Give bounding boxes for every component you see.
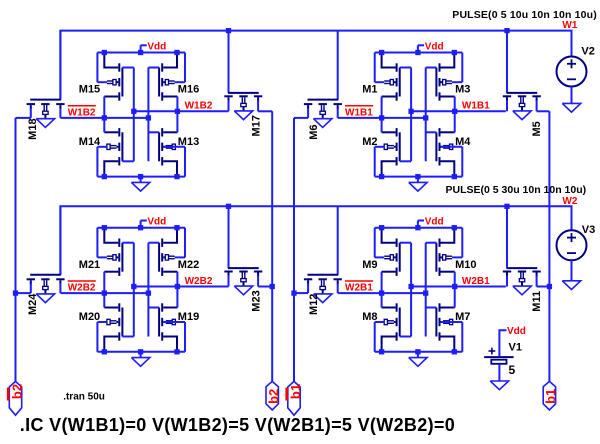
- svg-text:Vdd: Vdd: [147, 41, 166, 52]
- svg-text:M23: M23: [250, 290, 262, 311]
- wire bulk drop left (Vdd rail to M15 bulk): [96, 53, 98, 83]
- wire ground stub: [140, 352, 142, 358]
- wire M19 bulk to ground rail: [163, 321, 185, 323]
- ground flag at M11 bulk: [513, 286, 531, 295]
- wire cross-couple left: [410, 243, 412, 337]
- wire M17 right leg to bit line: [257, 100, 259, 111]
- wire ground rail of cell: [375, 351, 463, 353]
- svg-text:M15: M15: [79, 84, 100, 96]
- label W1B1 (overlined): [345, 105, 373, 107]
- wire M24 gate to word line: [59, 206, 61, 274]
- wire gate jog M8: [400, 336, 411, 338]
- port flag b1 inverted: [288, 381, 300, 415]
- svg-text:b1: b1: [543, 389, 558, 404]
- wire M15 drain to node: [103, 97, 105, 118]
- wire Vdd label stub: [417, 45, 419, 52]
- wire cross-couple right: [147, 243, 149, 337]
- wire M5 gate to word line: [506, 31, 508, 93]
- wire M7 bulk to ground rail: [441, 321, 463, 323]
- wire V1 to ground: [498, 364, 500, 381]
- wire M24 left leg to bit line: [30, 283, 32, 293]
- svg-text:M1: M1: [362, 84, 377, 96]
- wire M11 left leg to cell node: [506, 276, 508, 287]
- wire M17 left leg to cell node: [228, 100, 230, 111]
- wire V3 to ground: [571, 260, 573, 281]
- transistor M5 (NMOS pass): [503, 93, 541, 111]
- ground flag at M6 bulk: [314, 119, 332, 128]
- junction M11 to bit line: [547, 284, 552, 289]
- svg-text:V3: V3: [582, 224, 595, 236]
- wire ground stub: [417, 352, 419, 358]
- wire gate jog M13: [148, 131, 159, 133]
- svg-text:M3: M3: [455, 84, 470, 96]
- svg-text:V2: V2: [581, 46, 594, 58]
- ground below V3: [562, 281, 580, 290]
- wire M6 gate to word line: [337, 31, 339, 100]
- svg-text:b1: b1: [288, 384, 303, 399]
- wire M11 right leg to bit line: [536, 276, 538, 287]
- svg-text:Vdd: Vdd: [425, 217, 444, 228]
- wire M24 right leg to cell node: [59, 283, 61, 293]
- wire M6 left leg to bit line: [307, 108, 309, 118]
- wire M16 drain to node: [176, 97, 178, 112]
- ground flag of cell: [409, 182, 427, 191]
- wire gate jog M10: [426, 242, 437, 244]
- wire M8 bulk to ground rail: [375, 321, 385, 323]
- junction M17 gate on word line: [226, 28, 231, 33]
- wire gate jog M19: [148, 307, 159, 309]
- wire node W2B2 inverted (lower mid): [60, 292, 148, 294]
- svg-text:.IC V(W1B1)=0 V(W1B2)=5 V(W2B1: .IC V(W1B1)=0 V(W1B2)=5 V(W2B1)=5 V(W2B2…: [20, 415, 455, 435]
- wire M9 drain to node: [381, 272, 383, 293]
- junction dots of cell: [379, 225, 384, 230]
- wire ground rail of cell: [97, 351, 185, 353]
- svg-text:W2B1: W2B1: [462, 276, 490, 287]
- svg-text:.tran 50u: .tran 50u: [63, 392, 105, 403]
- svg-text:M21: M21: [79, 259, 100, 271]
- transistor M18 (NMOS pass): [27, 100, 65, 119]
- wire Vdd rail of cell M15/M16: [97, 52, 185, 54]
- wire M2 drain to node: [381, 118, 383, 132]
- wire gate jog M22: [148, 242, 159, 244]
- wire cross-couple right: [147, 68, 149, 162]
- svg-text:PULSE(0 5 30u 10n 10n 10u): PULSE(0 5 30u 10n 10n 10u): [446, 184, 587, 196]
- wire M12 gate to word line: [337, 206, 339, 274]
- svg-text:W1B2: W1B2: [185, 101, 213, 112]
- svg-text:M16: M16: [178, 84, 199, 96]
- junction dots of cell: [102, 50, 107, 55]
- transistor M13 (NMOS): [159, 128, 177, 175]
- transistor M22 (PMOS): [159, 230, 177, 276]
- transistor M19 (NMOS): [159, 303, 177, 350]
- wire gate jog M3: [426, 67, 437, 69]
- svg-text:M22: M22: [178, 259, 199, 271]
- port flag b1: [543, 381, 555, 410]
- svg-text:M20: M20: [79, 311, 100, 323]
- wire M7 drain to node: [454, 287, 456, 308]
- wire M23 gate to word line: [228, 206, 230, 268]
- wire Vdd rail of cell M1/M3: [375, 52, 463, 54]
- wire gate jog M9: [400, 242, 411, 244]
- wire M23 left leg to cell node: [228, 276, 230, 287]
- transistor M6 (NMOS pass): [304, 100, 342, 119]
- wire gate jog M20: [122, 336, 133, 338]
- wire M5 right leg to bit line: [536, 100, 538, 111]
- wire Vdd label stub: [417, 221, 419, 228]
- voltage source V2: [557, 57, 587, 87]
- wire node W1B2 (upper mid): [134, 110, 229, 112]
- wire M3 drain to node: [454, 97, 456, 112]
- svg-text:Vdd: Vdd: [507, 326, 526, 337]
- wire bulk drop right (Vdd rail to M3 bulk): [461, 53, 463, 83]
- wire M18 gate to word line: [59, 31, 61, 100]
- transistor M7 (NMOS): [436, 303, 454, 350]
- junction M5 gate on word line: [504, 28, 509, 33]
- wire gate jog M4: [426, 131, 437, 133]
- wire cross-couple right: [425, 68, 427, 162]
- svg-text:M17: M17: [250, 115, 262, 136]
- svg-text:M5: M5: [531, 121, 543, 136]
- junction M12 to bit line: [291, 290, 296, 295]
- wire M8 drain to node: [381, 293, 383, 307]
- svg-text:M10: M10: [455, 259, 476, 271]
- junction M11 gate on word line: [504, 204, 509, 209]
- svg-text:Vdd: Vdd: [425, 41, 444, 52]
- wire M6 right leg to cell node: [337, 108, 339, 118]
- wire bulk drop right (Vdd rail to M22 bulk): [184, 228, 186, 258]
- ground below V2: [562, 103, 580, 112]
- transistor M3 (PMOS): [436, 55, 454, 101]
- wire M10 drain to node: [454, 272, 456, 287]
- ground flag at M18 bulk: [36, 119, 54, 128]
- wire M13 bulk to ground rail: [163, 146, 185, 148]
- svg-text:V1: V1: [509, 342, 522, 354]
- ground flag of cell: [409, 358, 427, 367]
- ground flag at M12 bulk: [314, 294, 332, 303]
- svg-text:M18: M18: [27, 118, 39, 139]
- label W2B2 (overlined): [68, 280, 96, 282]
- wire bit line B1: [548, 111, 550, 381]
- svg-text:M24: M24: [27, 293, 39, 315]
- ground flag of cell: [131, 358, 149, 367]
- wire bit line B2 inverted: [15, 118, 17, 382]
- ground flag at M24 bulk: [36, 294, 54, 303]
- transistor M21 (PMOS): [104, 230, 122, 276]
- wire Vdd label stub: [140, 221, 142, 228]
- junction M23 gate on word line: [226, 204, 231, 209]
- wire gate jog M14: [122, 160, 133, 162]
- transistor M15 (PMOS): [104, 55, 122, 101]
- wire V1 top / Vdd stub: [499, 330, 506, 356]
- svg-text:W1: W1: [562, 20, 577, 31]
- wire node W2B1 (upper mid): [411, 286, 506, 288]
- voltage source V3: [557, 230, 587, 260]
- ground flag of cell: [131, 182, 149, 191]
- svg-text:W1B1: W1B1: [345, 107, 373, 118]
- wire gate jog M16: [148, 67, 159, 69]
- ground flag at M17 bulk: [234, 111, 252, 120]
- wire bulk drop right (Vdd rail to M16 bulk): [184, 53, 186, 83]
- svg-text:PULSE(0 5 10u 10n 10n 10u): PULSE(0 5 10u 10n 10n 10u): [452, 9, 597, 21]
- wire M21 drain to node: [103, 272, 105, 293]
- svg-text:b2: b2: [9, 384, 24, 399]
- ground flag at M5 bulk: [513, 111, 531, 120]
- transistor M4 (NMOS): [436, 128, 454, 175]
- transistor M12 (NMOS pass): [304, 275, 342, 294]
- wire ground rail of cell: [97, 176, 185, 178]
- wire bulk drop right (Vdd rail to M10 bulk): [461, 228, 463, 258]
- wire M20 drain to node: [103, 293, 105, 307]
- svg-text:5: 5: [509, 363, 516, 377]
- wire gate jog M1: [400, 67, 411, 69]
- junction dots of cell: [379, 50, 384, 55]
- transistor M2 (NMOS): [382, 128, 400, 175]
- svg-text:M12: M12: [308, 294, 320, 315]
- label W1B2 (overlined): [68, 105, 96, 107]
- svg-text:W1B1: W1B1: [462, 101, 490, 112]
- junction M24 to bit line: [13, 290, 18, 295]
- wire M14 drain to node: [103, 118, 105, 132]
- wire cross-couple left: [410, 68, 412, 162]
- transistor M10 (PMOS): [436, 230, 454, 276]
- wire M11 gate to word line: [506, 206, 508, 268]
- wire gate jog M15: [122, 67, 133, 69]
- transistor M9 (PMOS): [382, 230, 400, 276]
- svg-text:Vdd: Vdd: [147, 217, 166, 228]
- wire gate jog M2: [400, 160, 411, 162]
- wire ground stub: [417, 177, 419, 183]
- ground below V1: [490, 381, 508, 390]
- wire M12 left leg to bit line: [307, 283, 309, 293]
- transistor M1 (PMOS): [382, 55, 400, 101]
- voltage source V1 (battery): [484, 348, 513, 364]
- label W2B1 (overlined): [345, 280, 373, 282]
- wire M18 left leg to bit line: [30, 108, 32, 118]
- wire M4 drain to node: [454, 111, 456, 132]
- wire Vdd rail of cell M9/M10: [375, 227, 463, 229]
- wire M12 right leg to cell node: [337, 283, 339, 293]
- wire M22 drain to node: [176, 272, 178, 287]
- svg-text:W2B1: W2B1: [345, 283, 373, 294]
- transistor M24 (NMOS pass): [27, 275, 65, 294]
- wire Vdd label stub: [140, 45, 142, 52]
- junction M23 to bit line: [270, 284, 275, 289]
- wire word line W2: [60, 206, 571, 274]
- svg-text:M6: M6: [308, 125, 320, 140]
- wire node W1B2 inverted (lower mid): [60, 117, 148, 119]
- wire cross-couple left: [133, 68, 135, 162]
- wire M17 gate to word line: [228, 31, 230, 93]
- svg-text:M11: M11: [531, 291, 543, 312]
- wire Vdd rail of cell M21/M22: [97, 227, 185, 229]
- wire M14 bulk to ground rail: [97, 146, 107, 148]
- svg-text:W1B2: W1B2: [68, 107, 96, 118]
- wire gate jog M7: [426, 307, 437, 309]
- wire node W1B1 (upper mid): [411, 110, 506, 112]
- wire word line W1: [60, 31, 571, 100]
- wire node W2B2 (upper mid): [134, 286, 229, 288]
- wire node W2B1 inverted (lower mid): [338, 292, 426, 294]
- transistor M14 (NMOS): [104, 128, 122, 175]
- wire M1 drain to node: [381, 97, 383, 118]
- wire node W1B1 inverted (lower mid): [338, 117, 426, 119]
- ground flag at M23 bulk: [234, 286, 252, 295]
- svg-text:W2B2: W2B2: [68, 283, 96, 294]
- wire bulk drop left (Vdd rail to M21 bulk): [96, 228, 98, 258]
- wire bit line B2: [271, 111, 273, 381]
- transistor M8 (NMOS): [382, 303, 400, 350]
- wire ground rail of cell: [375, 176, 463, 178]
- svg-text:W2B2: W2B2: [185, 276, 213, 287]
- transistor M16 (PMOS): [159, 55, 177, 101]
- wire M2 bulk to ground rail: [375, 146, 385, 148]
- wire cross-couple left: [133, 243, 135, 337]
- wire gate jog M21: [122, 242, 133, 244]
- wire M13 drain to node: [176, 111, 178, 132]
- transistor M20 (NMOS): [104, 303, 122, 350]
- wire M5 left leg to cell node: [506, 100, 508, 111]
- svg-text:W2: W2: [562, 196, 577, 207]
- wire M4 bulk to ground rail: [441, 146, 463, 148]
- wire M19 drain to node: [176, 287, 178, 308]
- wire bulk drop left (Vdd rail to M9 bulk): [374, 228, 376, 258]
- wire M23 right leg to bit line: [257, 276, 259, 287]
- wire bulk drop left (Vdd rail to M1 bulk): [374, 53, 376, 83]
- wire bit line B1 inverted: [293, 118, 295, 382]
- wire V2 to ground: [571, 87, 573, 104]
- wire M20 bulk to ground rail: [97, 321, 107, 323]
- wire ground stub: [140, 177, 142, 183]
- transistor M23 (NMOS pass): [224, 268, 262, 286]
- transistor M11 (NMOS pass): [503, 268, 541, 286]
- wire cross-couple right: [425, 243, 427, 337]
- port flag b2 inverted: [9, 381, 21, 415]
- junction dots of cell: [102, 225, 107, 230]
- port flag b2: [266, 381, 278, 410]
- svg-text:M9: M9: [362, 259, 377, 271]
- wire M18 right leg to cell node: [59, 108, 61, 118]
- svg-text:b2: b2: [266, 389, 281, 404]
- transistor M17 (NMOS pass): [224, 93, 262, 111]
